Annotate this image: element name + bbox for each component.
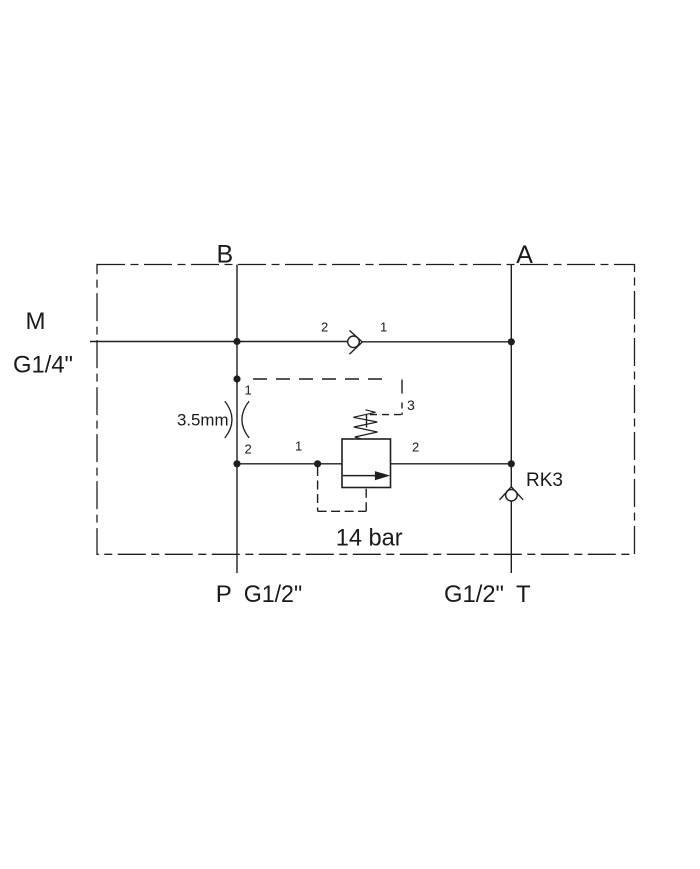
svg-text:G1/2": G1/2" [444,581,504,608]
wire M horizontal line right [362,341,511,343]
relief valve RV1 spring stem [366,415,368,428]
relief valve RV1 flow arrow [343,475,376,477]
orifice 3.5mm [225,401,249,438]
wire lower port line right [391,463,512,465]
node B lower junction [233,460,240,467]
wire lower port line left [237,463,342,465]
dashed branch wire from node B to pilot port 3 [253,378,391,380]
node pilot junction [314,460,321,467]
wire B vertical line [236,265,238,574]
svg-text:1: 1 [245,382,252,397]
svg-text:2: 2 [321,319,328,334]
svg-text:2: 2 [412,440,419,455]
svg-text:M: M [26,308,46,335]
dashed vertical wire at pilot port 3 [401,380,403,416]
svg-text:1: 1 [295,439,302,454]
svg-text:T: T [516,581,531,608]
svg-text:B: B [217,241,234,269]
enclosure dash-dot border [97,265,635,555]
svg-text:G1/4": G1/4" [13,352,73,379]
dashed wire from port 3 to spring [370,414,402,416]
relief valve RV1 spring [353,410,377,439]
dashed pilot line of relief valve [318,467,367,511]
svg-text:3: 3 [407,397,415,413]
check valve V1 on M line [348,330,363,354]
wire M horizontal line left [90,341,348,343]
node B-M junction [233,338,240,345]
svg-text:RK3: RK3 [526,470,563,491]
relief valve RV1 body [342,439,391,488]
node A-M junction [508,338,515,345]
wire A vertical line upper [510,265,512,488]
svg-text:A: A [516,241,533,269]
node A lower junction [508,460,515,467]
check valve RK3 on A line [500,487,523,501]
svg-text:14 bar: 14 bar [336,525,403,552]
svg-text:G1/2": G1/2" [244,581,303,608]
wire A vertical line lower [510,501,512,573]
svg-text:3.5mm: 3.5mm [177,411,229,430]
svg-text:2: 2 [245,441,252,456]
node B branch junction [233,375,240,382]
svg-text:1: 1 [380,320,387,335]
svg-text:P: P [216,581,232,608]
